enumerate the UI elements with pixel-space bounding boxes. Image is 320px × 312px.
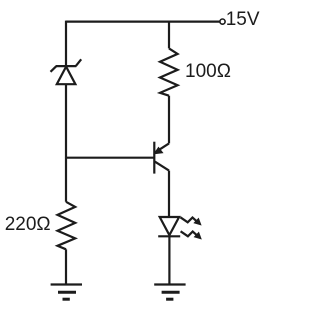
label 100 ohm bbox=[185, 61, 231, 83]
terminal 15V bbox=[220, 19, 225, 24]
wire LED cathode to ground bbox=[168, 236, 170, 284]
wire base (left branch to transistor base) bbox=[66, 157, 154, 159]
ground right bbox=[154, 285, 185, 300]
label 15V bbox=[226, 9, 260, 31]
transistor Q1 PNP bbox=[154, 142, 169, 174]
wire transistor collector to LED anode bbox=[168, 171, 170, 217]
node base junction bbox=[65, 157, 67, 160]
wire left branch top (rail to zener cathode) bbox=[65, 21, 67, 66]
wire right branch top (rail to 100 ohm resistor) bbox=[168, 21, 170, 49]
zener diode D1 bbox=[51, 59, 82, 84]
LED light arrow lower bbox=[181, 231, 201, 239]
wire left branch to 220 ohm resistor bbox=[65, 158, 67, 202]
LED light arrow upper bbox=[180, 217, 200, 225]
wire top rail from left branch to 15V terminal bbox=[66, 21, 220, 23]
LED D2 bbox=[158, 217, 180, 236]
wire 100 ohm resistor to transistor emitter bbox=[168, 96, 170, 144]
label 220 ohm bbox=[5, 214, 51, 236]
resistor R1 100 ohm bbox=[160, 48, 178, 95]
resistor R2 220 ohm bbox=[58, 202, 76, 250]
ground left bbox=[51, 285, 82, 300]
wire 220 ohm resistor to ground bbox=[65, 249, 67, 284]
wire left branch middle (zener anode to base node) bbox=[65, 84, 67, 158]
